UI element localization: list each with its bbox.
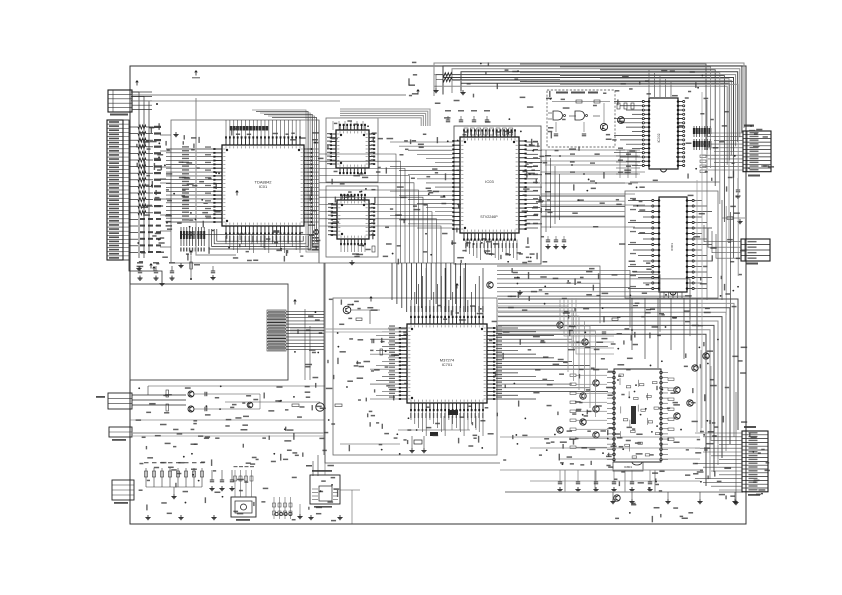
ground G702	[180, 263, 182, 266]
gray bus nest IC01 top-right	[252, 110, 319, 252]
resistor R409	[372, 246, 375, 252]
wire Q701 bus	[290, 310, 406, 332]
wire x305 vertical	[304, 309, 306, 380]
connector CN601	[96, 393, 132, 409]
net label noise	[136, 62, 774, 523]
top bus wires to right edge	[434, 63, 744, 165]
resistor R820	[612, 318, 618, 321]
dark component D701	[448, 410, 458, 415]
svg-text:IC002: IC002	[657, 133, 661, 142]
svg-text:IC801: IC801	[624, 465, 632, 469]
wire IC003 right fan	[694, 201, 713, 289]
supply arrow VP805	[135, 80, 139, 82]
svg-text:STV2246P: STV2246P	[480, 215, 498, 219]
resistor R701	[356, 318, 362, 321]
resistor R602	[166, 404, 169, 411]
wire section divider horizontal	[319, 262, 454, 264]
ground G740	[733, 392, 738, 505]
IC801 label	[613, 462, 643, 471]
resistor array RA001	[693, 126, 711, 150]
CN3 label	[746, 263, 758, 265]
ground G703	[519, 290, 521, 293]
spark gap cluster	[273, 497, 293, 519]
gray bus nest bottom-right quadrant	[498, 299, 738, 486]
capacitor C601	[204, 392, 206, 396]
wire CN4 entry fan	[500, 433, 742, 490]
capacitor C905 chain	[735, 178, 740, 198]
supply arrow VP601	[369, 296, 373, 298]
wire CN2 entry fan	[702, 133, 743, 170]
transistor Q804	[580, 419, 586, 425]
wire fan left of IC03 (nested L bends)	[319, 154, 441, 263]
transistor Q901	[600, 123, 607, 130]
connector CN2 (right edge)	[743, 131, 771, 172]
wire analog block bottom rail	[530, 469, 700, 471]
wires from label column to IC701	[286, 311, 324, 349]
capacitor row C901	[445, 110, 490, 122]
IC02 upper section inner wires	[333, 121, 363, 130]
transistor Q101	[314, 230, 319, 235]
resistor chain R706	[189, 250, 200, 280]
wire rows below IC002	[545, 153, 638, 184]
transistor Q802	[580, 393, 586, 399]
transistor Q812	[557, 427, 563, 433]
supply arrow VP703	[455, 283, 459, 285]
resistor R702	[380, 349, 383, 355]
wire bundle between IC03 and IC003	[545, 150, 560, 232]
resistor R601	[166, 390, 169, 397]
jungle IC003 (DIP)	[652, 197, 695, 295]
IC03 section box wire	[454, 126, 541, 264]
IC03 left pin wires fan	[390, 142, 454, 228]
net label column	[267, 310, 286, 351]
wire top-left horizontals	[132, 94, 406, 96]
analog block internal clutter	[617, 374, 660, 458]
resistor R606	[335, 404, 342, 407]
CN2 label	[744, 125, 754, 127]
transistor Q805	[593, 432, 599, 438]
video processor IC03 (QFP)	[452, 129, 526, 240]
gray bus nest around IC03 top-left	[340, 109, 430, 126]
wire nested loops under IC01	[209, 229, 311, 249]
wire vertical bundle above CN4	[701, 350, 711, 441]
wire right margin verticals	[697, 92, 707, 432]
transistor Q602	[188, 406, 194, 412]
capacitor group C330	[545, 236, 566, 249]
wire bus IC03 to IC701	[392, 263, 466, 312]
varistor circles row	[275, 512, 292, 515]
wire CN802 bottom hook	[129, 260, 165, 286]
gray rail bottom right	[505, 492, 743, 504]
capacitor cluster bottom-left	[209, 470, 234, 491]
reset block title	[556, 92, 598, 94]
IC04 section box wire	[326, 186, 378, 257]
IC02 section box wire	[326, 118, 378, 182]
supply arrow VP804	[149, 263, 153, 265]
svg-text:IC01: IC01	[259, 184, 268, 189]
IC701 bottom pin wires	[410, 411, 483, 437]
wire analog to bottom border	[565, 470, 655, 492]
net labels right of IC01 section	[312, 237, 319, 251]
logic gate U902	[575, 111, 600, 120]
resistor stub row bottom-left	[144, 462, 205, 499]
IC701 section box wire	[333, 298, 497, 455]
ground G805	[138, 266, 140, 269]
gray audio bus	[130, 433, 324, 436]
keypad vertical wires	[234, 466, 255, 497]
connector CN801	[108, 90, 152, 116]
components under analog block	[557, 470, 652, 492]
wire CN3 entry fan	[704, 225, 741, 258]
transistor Q807	[687, 400, 693, 406]
wire audio top rail	[148, 385, 325, 387]
resistor R901 wire	[433, 73, 560, 93]
IC04 pin labels	[328, 203, 375, 252]
IC701 right pin wires fan to right	[495, 325, 609, 399]
gray bus into analog block	[497, 306, 596, 417]
connector CN602	[109, 427, 132, 441]
ground G801	[175, 132, 177, 135]
IC701 left pin wires	[370, 325, 400, 399]
capacitor C903	[582, 133, 586, 135]
wire IC002 left fan	[614, 102, 643, 166]
ground G606	[297, 504, 302, 519]
IC801 internal dark bar	[631, 406, 636, 424]
capacitor C810 group	[137, 262, 175, 280]
wire IF block	[325, 455, 360, 524]
buffer IC002 (DIP)	[642, 98, 685, 172]
transistor Q806	[674, 387, 680, 393]
wire IC01 bottom rail stubs	[240, 234, 300, 248]
wire boundary under IC002	[630, 181, 720, 183]
op-amp IC601 small circle	[316, 403, 324, 411]
transistor Q701	[343, 306, 351, 314]
gray bus through IC01 area	[196, 98, 236, 255]
svg-text:IC701: IC701	[442, 362, 453, 367]
gray bus right vertical bundle lower	[722, 200, 730, 330]
IC701 top pin wires	[410, 268, 483, 317]
supply arrow VP801	[194, 70, 198, 72]
wire x310 vertical	[309, 326, 311, 380]
ground row bottom left	[145, 515, 342, 520]
resistor R906	[722, 217, 745, 224]
transistor Q820	[557, 322, 563, 328]
video switch IC04 (QFP)	[331, 194, 375, 245]
keypad block CN604	[231, 497, 256, 521]
capacitor C701	[371, 339, 373, 343]
svg-text:IC003: IC003	[670, 243, 674, 251]
wire bus mid-right horizontals	[497, 266, 690, 336]
supply arrow VP802	[235, 190, 239, 192]
IC01 right pin wires	[312, 149, 319, 222]
capacitor C902	[554, 133, 558, 135]
border frame wire	[130, 66, 746, 524]
connector CN603	[112, 480, 134, 504]
transistor Q809	[692, 365, 698, 371]
IC01 section box wire	[171, 120, 319, 263]
wire divider stub	[318, 120, 320, 263]
svg-text:IC03: IC03	[485, 179, 494, 184]
IC003 section box wire	[625, 191, 718, 298]
transistor Q808	[674, 413, 680, 419]
IC03 top pin label rects	[464, 128, 513, 135]
wire reset internals	[552, 102, 610, 133]
transistor Q601	[188, 391, 194, 397]
transistor Q902	[618, 117, 625, 124]
connector CN3 (right edge)	[741, 239, 770, 261]
wire IF block feeds	[306, 455, 318, 476]
IC701 outer boundary wire	[325, 263, 500, 463]
transistor Q811	[614, 495, 620, 501]
resistor R905 cluster	[617, 103, 634, 109]
op-amp IC01 (TDA8842 QFP)	[213, 136, 312, 234]
IC01 left pin wires	[166, 146, 215, 222]
ground G901	[462, 90, 464, 93]
supply arrow VP901	[416, 89, 420, 91]
resistor cluster right of IC002	[700, 155, 706, 173]
crystal X701 group	[409, 436, 426, 453]
transistor Q704	[487, 282, 493, 288]
junction dot top-left	[156, 103, 158, 105]
wire audio section	[132, 386, 186, 405]
resistor R605	[292, 404, 299, 407]
wire harness from CN802	[129, 125, 161, 253]
CN4 labels	[744, 426, 756, 428]
IC03 bottom pin wires down	[465, 240, 517, 261]
logic gate U901	[548, 111, 576, 120]
transistor Q803	[593, 406, 599, 412]
wire IC003 bottom stubs	[664, 292, 682, 298]
empty section box wire	[130, 284, 288, 380]
resistor R903	[576, 100, 582, 103]
comparator IC02 (QFP)	[330, 124, 375, 174]
component mesh left of IC002	[616, 148, 640, 179]
wire section divider vertical	[323, 263, 325, 455]
wire CN801 to harness verticals	[131, 92, 149, 258]
wire IC003 left fan	[628, 198, 653, 289]
resistor cluster left of IC801	[570, 374, 607, 449]
transistor Q810	[703, 353, 709, 359]
microcontroller IC701 (QFP)	[399, 316, 495, 411]
resistor group under IC01	[180, 227, 314, 252]
wire audio mid	[194, 394, 320, 409]
resistor cluster right of IC801	[668, 378, 674, 441]
capacitor C820	[602, 331, 606, 333]
wire IC002 top feeds	[649, 70, 671, 97]
transistor Q603	[247, 402, 253, 408]
supply arrow VP803	[152, 266, 156, 268]
transistor Q821	[582, 339, 588, 345]
resistor R902	[594, 100, 600, 103]
ground G402	[351, 260, 353, 263]
gray bus from IC003 down	[560, 298, 614, 354]
gray bus right vertical bundle	[520, 64, 738, 276]
capacitor C602	[204, 407, 206, 411]
connector CN4 (right edge, 16 pin)	[742, 431, 768, 492]
dark component D702	[430, 432, 438, 436]
IC801 vertical rails	[607, 369, 668, 465]
IC01 bottom pin wires	[225, 234, 300, 254]
wire IC701 underside net	[340, 416, 476, 444]
reset block dashed box	[547, 90, 615, 147]
IC03 right pin wires	[526, 141, 646, 228]
transistor Q801	[593, 380, 599, 386]
IC01 top pin label rects	[226, 120, 300, 138]
wire long return	[130, 419, 324, 421]
supply arrow VP702	[293, 299, 297, 301]
connector CN802	[107, 120, 129, 260]
wire IC003 bottom feeds	[632, 298, 703, 368]
IF block CN605	[310, 470, 340, 508]
wire harness to IC01 section	[160, 135, 171, 247]
capacitor C703	[210, 266, 215, 280]
IC02 pin labels	[327, 133, 375, 164]
gray bus rows into IC003 section	[541, 196, 625, 217]
